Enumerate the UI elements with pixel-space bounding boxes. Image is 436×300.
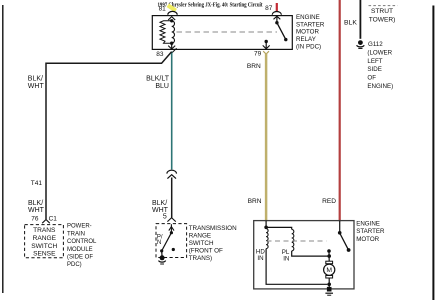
wire: BRN from pin 79 to starter — [265, 54, 268, 222]
svg-text:STARTER: STARTER — [296, 21, 325, 28]
svg-text:WHT: WHT — [28, 207, 45, 214]
wire: motor case ground link — [328, 284, 330, 287]
label: pin 76 connector C1 — [31, 215, 57, 222]
svg-text:IN: IN — [257, 255, 263, 262]
svg-text:(FRONT OF: (FRONT OF — [189, 248, 223, 255]
svg-text:5: 5 — [163, 213, 167, 220]
svg-text:N: N — [157, 240, 161, 246]
wire: RED battery feed to starter — [339, 0, 341, 221]
resistor: relay coil shunt resistor — [160, 21, 172, 43]
node: solenoid battery contact — [338, 231, 342, 235]
wire: pull-in winding feed — [266, 227, 292, 229]
node: coil bottom junction — [170, 42, 173, 45]
svg-text:BLK/: BLK/ — [152, 200, 167, 207]
node: solenoid feed junction — [264, 226, 268, 230]
svg-text:81: 81 — [159, 5, 167, 12]
wire: BLK/LT BLU from pin 83 — [171, 52, 173, 170]
connector: inline connector on wire to pin 5 — [167, 170, 177, 178]
inductor: relay coil — [172, 21, 175, 43]
svg-text:87: 87 — [265, 5, 273, 12]
switch: relay contact arm 87 — [277, 23, 288, 42]
svg-text:BLK: BLK — [344, 19, 357, 26]
svg-text:76: 76 — [31, 215, 39, 222]
svg-text:BLK/LT: BLK/LT — [146, 76, 170, 83]
svg-text:PDC): PDC) — [67, 262, 82, 268]
svg-text:ENGINE): ENGINE) — [367, 83, 393, 90]
svg-text:SWITCH: SWITCH — [189, 240, 214, 247]
ground G112 — [357, 40, 365, 48]
ground: TRS case ground — [159, 255, 166, 264]
svg-text:BLK/: BLK/ — [28, 76, 43, 83]
svg-text:M: M — [326, 267, 332, 274]
label: TRANS RANGE SWITCH SENSE — [31, 227, 57, 258]
svg-text:BLU: BLU — [155, 83, 169, 90]
wire: yellow stub at pin 81 — [168, 5, 176, 10]
svg-text:MOTOR: MOTOR — [296, 29, 319, 36]
relay U1: engine starter motor relay box — [152, 16, 292, 50]
svg-text:G112: G112 — [368, 41, 383, 48]
svg-text:C1: C1 — [49, 215, 58, 222]
svg-text:LEFT: LEFT — [367, 58, 382, 65]
label: G112 (LOWER LEFT SIDE OF ENGINE) — [367, 41, 393, 90]
svg-text:STRUT: STRUT — [371, 8, 393, 15]
svg-text:SWITCH: SWITCH — [31, 243, 57, 250]
svg-text:SENSE: SENSE — [33, 250, 56, 257]
inductor: hold-in winding HD IN — [266, 229, 268, 249]
svg-text:SIDE: SIDE — [367, 66, 381, 73]
connector: arrow into PCM — [42, 220, 50, 224]
node: TRS bottom contact — [160, 249, 163, 252]
label: BLK/WHT 5 — [152, 200, 169, 220]
svg-text:IN: IN — [283, 256, 289, 263]
label: TRANSMISSION RANGE SWITCH (FRONT OF TRANS) — [189, 225, 237, 262]
svg-text:BLK/: BLK/ — [28, 200, 43, 207]
motor: starter motor symbol M — [324, 261, 335, 284]
label: P/ N — [157, 235, 163, 246]
pin 81 — [159, 5, 178, 22]
svg-text:MOTOR: MOTOR — [356, 236, 379, 243]
switch: solenoid contact arm — [340, 233, 351, 252]
node: TRS top contact — [170, 231, 173, 234]
label: PL IN — [282, 249, 290, 263]
svg-text:BRN: BRN — [248, 198, 262, 205]
svg-text:RANGE: RANGE — [189, 233, 211, 240]
svg-text:TOWER): TOWER) — [369, 16, 396, 23]
svg-text:TRAIN: TRAIN — [67, 231, 85, 237]
wire: TRS to ground — [161, 251, 163, 258]
wire: pull-in winding return — [292, 251, 328, 256]
svg-text:STARTER: STARTER — [356, 228, 385, 235]
svg-text:OF: OF — [367, 75, 376, 82]
label: BLK/WHT upper left — [28, 76, 45, 91]
label: relay name ENGINE STARTER MOTOR RELAY (IN PDC) — [296, 14, 325, 51]
svg-text:POWER-: POWER- — [67, 224, 92, 230]
wire: right vertical black wire (cut off) — [432, 6, 434, 300]
svg-text:TRANSMISSION: TRANSMISSION — [189, 225, 237, 232]
label: HD IN — [256, 248, 265, 262]
inductor: pull-in winding PL IN — [292, 229, 294, 251]
svg-text:ENGINE: ENGINE — [296, 14, 320, 21]
motor M1: engine starter motor box — [254, 221, 354, 289]
pin 79 — [254, 40, 270, 58]
wire: BRN entry stub — [265, 221, 267, 228]
svg-text:ENGINE: ENGINE — [356, 220, 380, 227]
svg-text:RANGE: RANGE — [33, 235, 57, 242]
label: BLK/LT BLU — [146, 76, 170, 91]
svg-text:T41: T41 — [31, 180, 43, 187]
svg-text:(SIDE OF: (SIDE OF — [67, 255, 93, 261]
node: TRS spare contact — [172, 248, 175, 251]
wire: BLK/WHT from pin 83 to PCM — [46, 52, 172, 220]
wire: left frame edge — [2, 5, 4, 293]
svg-text:BRN: BRN — [247, 63, 261, 70]
switch: TRS arm P/N — [162, 233, 172, 251]
svg-text:RELAY: RELAY — [296, 36, 316, 43]
svg-text:TRANS: TRANS — [33, 227, 56, 234]
svg-text:83: 83 — [156, 51, 164, 58]
svg-text:(IN PDC): (IN PDC) — [296, 44, 321, 51]
svg-text:(LOWER: (LOWER — [367, 50, 392, 57]
node: motor feed contact — [327, 249, 331, 253]
svg-text:79: 79 — [254, 50, 262, 57]
wire: red stub at pin 87 — [276, 3, 278, 12]
pin 87 — [265, 3, 281, 24]
wire: hold-in winding return — [266, 249, 327, 285]
label: ENGINE STARTER MOTOR — [356, 220, 385, 243]
label: BLK/WHT lower left — [28, 200, 45, 214]
wire: pin 5 stub inside TRS — [169, 224, 174, 233]
label: POWERTRAIN CONTROL MODULE (SIDE OF PDC) — [67, 224, 97, 269]
wire: RED entry stub — [339, 221, 341, 233]
wire: BLK/WHT down to transmission range switch pin 5 — [171, 178, 173, 218]
switch: transmission range switch dashed box — [156, 224, 187, 258]
wire: BLK ground wire — [359, 0, 361, 39]
svg-text:MODULE: MODULE — [67, 247, 93, 253]
node: motor return junction — [327, 283, 331, 287]
connector: tan Y mark below pin 79 — [263, 51, 269, 54]
label: (RIGHT STRUT TOWER) — [369, 6, 398, 24]
pin 83 — [156, 43, 176, 58]
wire: motor feed — [328, 251, 330, 261]
wire: solenoid plunger dashed link — [267, 240, 327, 242]
node: pull-in junction — [327, 254, 331, 258]
module: powertrain control module dashed box — [25, 225, 64, 258]
svg-text:WHT: WHT — [28, 83, 45, 90]
svg-text:TRANS): TRANS) — [189, 255, 212, 262]
ground: starter case ground — [325, 287, 333, 295]
svg-text:RED: RED — [322, 198, 336, 205]
svg-text:CONTROL: CONTROL — [67, 239, 97, 245]
connector: arrow into TRS pin 5 — [167, 218, 175, 222]
